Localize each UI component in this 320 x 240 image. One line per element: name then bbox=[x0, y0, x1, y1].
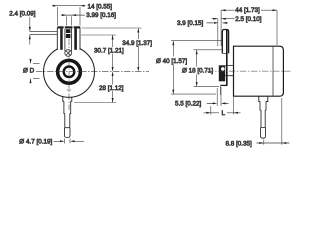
shaft lines bbox=[225, 66, 233, 76]
svg-text:Ø 40 [1.57]: Ø 40 [1.57] bbox=[156, 58, 187, 65]
dim L bbox=[211, 97, 234, 115]
dim 14 [0.55] bbox=[57, 7, 80, 26]
side centerline bbox=[207, 70, 292, 72]
svg-text:Ø D: Ø D bbox=[23, 68, 35, 75]
phillips screw head bbox=[65, 50, 72, 57]
dim 34.9 [1.37] bbox=[82, 27, 142, 29]
front housing circle bbox=[44, 46, 95, 97]
cable end front bbox=[65, 128, 71, 138]
hub inner ring bbox=[64, 67, 75, 78]
svg-text:14 [0.55]: 14 [0.55] bbox=[88, 4, 113, 11]
clamp right dark band bbox=[74, 29, 77, 50]
svg-text:L: L bbox=[222, 110, 226, 117]
clamp left dark band bbox=[60, 29, 63, 50]
tether tab (top, rounded) bbox=[222, 30, 228, 54]
center tick bbox=[67, 89, 71, 91]
side cable end bbox=[261, 128, 266, 139]
dim 3.9 [0.15] bbox=[207, 22, 229, 24]
svg-text:28 [1.12]: 28 [1.12] bbox=[99, 85, 124, 92]
clamp slot U-shape bbox=[65, 29, 72, 55]
side cable gland bbox=[259, 96, 268, 101]
cable gland front bbox=[63, 97, 72, 102]
svg-text:5.5 [0.22]: 5.5 [0.22] bbox=[175, 101, 202, 108]
svg-text:30.7 [1.21]: 30.7 [1.21] bbox=[94, 47, 124, 54]
clamp outer edges bbox=[57, 28, 80, 50]
dim 30.7 [1.21] bbox=[81, 34, 116, 36]
dim 28 [1.12] bbox=[74, 102, 116, 104]
dim 2.4 [0.09] bbox=[29, 17, 31, 45]
hub outer thick ring bbox=[58, 60, 81, 83]
clamp white mask over circle top bbox=[58, 26, 80, 49]
dim 44 [1.73] bbox=[221, 10, 277, 46]
dim O 40 [1.57] bbox=[171, 41, 222, 94]
clamp collar dark bbox=[219, 65, 225, 81]
svg-text:3.99 [0.16]: 3.99 [0.16] bbox=[86, 12, 116, 19]
dim 8.8 [0.35] bbox=[264, 98, 282, 145]
plate face bbox=[226, 30, 228, 86]
svg-text:Ø 4.7 [0.19]: Ø 4.7 [0.19] bbox=[19, 138, 52, 145]
svg-text:3.9 [0.15]: 3.9 [0.15] bbox=[177, 20, 204, 27]
tether arm (two lines upper left) bbox=[30, 32, 58, 35]
dim O D bbox=[33, 63, 40, 78]
svg-text:Ø 18 [0.71]: Ø 18 [0.71] bbox=[182, 68, 213, 75]
dim O 4.7 [0.19] bbox=[65, 139, 71, 144]
dim 3.99 [0.16] bbox=[67, 16, 72, 25]
svg-text:34.9 [1.37]: 34.9 [1.37] bbox=[122, 40, 152, 47]
dim O 18 [0.71] bbox=[194, 50, 223, 87]
svg-text:44 [1.73]: 44 [1.73] bbox=[235, 7, 260, 14]
dim 5.5 [0.22] bbox=[217, 87, 221, 106]
dim 2.5 [0.10] bbox=[217, 19, 219, 46]
tab step bbox=[222, 52, 226, 54]
svg-text:8.8 [0.35]: 8.8 [0.35] bbox=[226, 140, 253, 147]
body seam bbox=[272, 46, 274, 96]
vertical centerline bbox=[68, 39, 70, 111]
clamp screw in slot bbox=[66, 29, 71, 38]
svg-text:2.4 [0.09]: 2.4 [0.09] bbox=[9, 11, 36, 18]
svg-text:2.5 [0.10]: 2.5 [0.10] bbox=[235, 16, 262, 23]
clamp top dark cap bbox=[57, 26, 80, 28]
plate bottom cap bbox=[221, 84, 228, 86]
horizontal centerline bbox=[36, 71, 149, 73]
side body bbox=[234, 46, 284, 96]
